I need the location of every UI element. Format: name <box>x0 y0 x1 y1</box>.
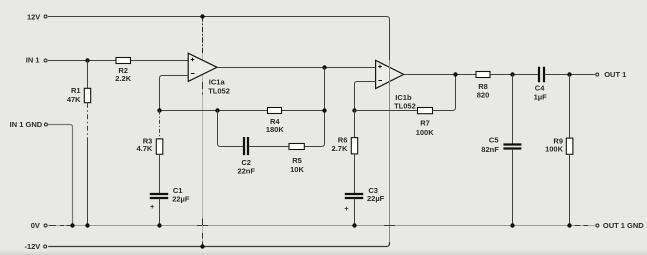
node junction IC1b minus node <box>352 108 356 112</box>
resistor R4 <box>268 108 282 114</box>
wire 0V rail dark dashes <box>49 225 588 227</box>
wire R2 to op-amp <box>131 60 189 62</box>
capacitor C2 <box>244 137 248 155</box>
svg-text:4.7K: 4.7K <box>136 144 152 153</box>
svg-text:R1: R1 <box>71 86 81 95</box>
svg-text:C5: C5 <box>489 136 499 145</box>
node junction 12V power <box>200 14 204 18</box>
node junction minus input node <box>157 108 161 112</box>
wire R9 top lead <box>569 75 571 139</box>
svg-text:1µF: 1µF <box>534 92 547 101</box>
resistor R9 <box>566 138 573 154</box>
wire -12V rail with corner up <box>48 242 389 247</box>
op-amp U1 IC1a <box>188 53 217 81</box>
wire R1 bottom lead to 0V <box>87 103 89 140</box>
wire feedback node line left of R4 <box>160 110 268 112</box>
wire 0V rail <box>48 225 595 227</box>
svg-text:TL052: TL052 <box>208 86 230 95</box>
wire C5 bottom lead <box>512 149 514 226</box>
wire R6 to C3 <box>354 154 356 194</box>
svg-text:0V: 0V <box>31 221 40 230</box>
svg-text:TL052: TL052 <box>394 102 416 111</box>
node junction output stage1 <box>322 65 326 69</box>
resistor R7 <box>418 108 433 114</box>
node junction feedback takeoff <box>453 72 457 76</box>
svg-text:82nF: 82nF <box>481 145 499 154</box>
wire R7 to output junction <box>433 75 456 111</box>
op-amp U2 IC1b <box>376 60 404 88</box>
wire R4 right to output-side vertical <box>282 110 325 112</box>
wire IC1a output to IC1b plus input <box>217 67 376 69</box>
resistor R6 <box>351 138 357 154</box>
svg-text:-12V: -12V <box>24 242 40 251</box>
wire IC1b power crossing (over triangle) <box>389 61 391 89</box>
svg-text:IN 1: IN 1 <box>26 55 40 64</box>
node junction C1 at 0V <box>157 223 161 227</box>
svg-text:2.7K: 2.7K <box>332 144 348 153</box>
wire R1 top lead <box>87 61 89 89</box>
svg-text:180K: 180K <box>266 125 285 134</box>
resistor R3 <box>156 139 163 154</box>
node junction R9 at 0V <box>567 223 571 227</box>
wire IC1a power feed faint vertical <box>202 17 204 247</box>
node junction -12V power <box>200 244 204 248</box>
wire C5 top lead <box>512 75 514 144</box>
node OUT 1 GND terminal <box>596 224 599 227</box>
resistor R5 <box>289 144 304 150</box>
svg-text:IC1b: IC1b <box>395 93 412 102</box>
svg-text:12V: 12V <box>27 12 40 21</box>
wire vertical from output junction down to feedback line and loop corner <box>304 68 324 147</box>
capacitor C3 polarized <box>345 194 363 198</box>
svg-text:IN 1 GND: IN 1 GND <box>10 120 43 129</box>
node junction IN1GND at 0V <box>70 223 74 227</box>
svg-text:47K: 47K <box>67 95 81 104</box>
svg-text:+: + <box>150 202 155 211</box>
resistor R2 <box>116 58 131 64</box>
svg-text:820: 820 <box>477 90 490 99</box>
wire IC1b power vertical down to -12V rail <box>389 60 391 243</box>
svg-text:R5: R5 <box>292 156 302 165</box>
node junction R9 top <box>567 72 571 76</box>
wire C3 to 0V <box>354 199 356 226</box>
svg-text:22nF: 22nF <box>237 167 255 176</box>
capacitor C1 polarized <box>150 194 168 198</box>
wire R9 bottom lead <box>569 154 571 225</box>
wire feedback to R7 <box>355 110 418 112</box>
wire IC1b output line <box>404 74 476 76</box>
node junction loop left <box>215 108 219 112</box>
wire R8 to C4 <box>490 74 538 76</box>
node junction C5 top <box>510 72 514 76</box>
wire IC1a power feed dark dash-dot segments <box>202 17 204 54</box>
svg-text:22µF: 22µF <box>172 195 190 204</box>
resistor R8 <box>476 72 490 78</box>
resistor R1 <box>84 88 90 102</box>
node junction R1 at 0V <box>85 223 89 227</box>
node junction IN1/R1 <box>85 58 89 62</box>
wire C1 to 0V <box>159 199 161 226</box>
wire IN1 line to R2 <box>48 60 116 62</box>
wire IC1b inverting input down to feedback node <box>355 82 376 111</box>
wire C2 to R5 <box>249 146 289 148</box>
node junction C5 at 0V <box>510 223 514 227</box>
wire 12V rail across top with corner down <box>48 17 390 61</box>
node junction C3 at 0V <box>352 223 356 227</box>
svg-text:OUT 1 GND: OUT 1 GND <box>603 221 644 230</box>
wire R3 upper lead dashed <box>159 111 161 139</box>
svg-text:100K: 100K <box>545 145 564 154</box>
capacitor C5 <box>503 145 521 149</box>
wire R6 top lead <box>354 111 356 138</box>
svg-text:C4: C4 <box>535 84 545 93</box>
wire IN 1 GND to 0V rail <box>48 125 73 226</box>
svg-text:22µF: 22µF <box>367 194 385 203</box>
wire loop left vertical down to C2 <box>218 111 244 147</box>
svg-text:R7: R7 <box>420 119 430 128</box>
wire C4 to OUT 1 <box>545 74 595 76</box>
capacitor C4 <box>539 67 544 82</box>
svg-text:OUT 1: OUT 1 <box>604 70 626 79</box>
node OUT 1 terminal <box>596 73 599 76</box>
svg-text:+: + <box>344 204 349 213</box>
svg-text:100K: 100K <box>416 128 435 137</box>
svg-text:2.2K: 2.2K <box>115 74 131 83</box>
wire IC1a inverting input down to feedback node <box>160 76 189 111</box>
node junction loop right <box>322 108 326 112</box>
svg-text:10K: 10K <box>290 165 304 174</box>
wire R3 to C1 <box>159 154 161 194</box>
